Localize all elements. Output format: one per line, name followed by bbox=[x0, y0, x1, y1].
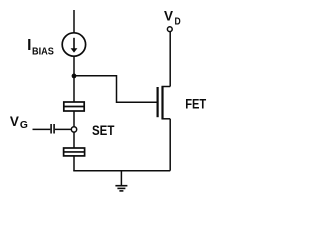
label I_BIAS bbox=[27, 37, 54, 57]
svg-text:G: G bbox=[20, 120, 28, 131]
terminal V_D (open circle) bbox=[167, 27, 172, 32]
wire: island to junction J2 bbox=[73, 132, 75, 148]
label V_G bbox=[10, 114, 28, 131]
svg-text:V: V bbox=[164, 8, 173, 23]
wire: bottom rail bbox=[73, 170, 170, 172]
label FET bbox=[185, 95, 206, 111]
wire: V_G lead to gate capacitor bbox=[33, 128, 51, 130]
wire: top lead into current source bbox=[73, 10, 75, 33]
ground bbox=[115, 171, 127, 191]
wire: gate feed from bias node to FET gate bbox=[74, 76, 157, 103]
svg-text:V: V bbox=[10, 114, 19, 129]
svg-text:FET: FET bbox=[185, 95, 206, 111]
wire: gate capacitor to SET island bbox=[55, 128, 71, 130]
svg-text:SET: SET bbox=[92, 123, 115, 138]
wire: J2 down to bottom rail bbox=[73, 156, 75, 171]
svg-text:BIAS: BIAS bbox=[32, 46, 54, 57]
tunnel junction J2 bbox=[64, 148, 85, 156]
svg-text:D: D bbox=[175, 16, 181, 27]
wire: J1 to island bbox=[73, 111, 75, 126]
node: junction dot at bias/gate tap bbox=[72, 74, 77, 79]
label V_D bbox=[164, 8, 181, 27]
current source I_BIAS bbox=[62, 33, 85, 56]
tunnel junction J1 bbox=[64, 102, 84, 111]
wire: FET drain up to V_D terminal bbox=[169, 32, 171, 87]
wire: FET source down to bottom rail bbox=[169, 119, 171, 171]
FET Q1 bbox=[158, 86, 171, 119]
wire: current source to junction J1 bbox=[73, 56, 75, 102]
node: SET island (open circle) bbox=[71, 127, 76, 132]
capacitor Cg (SET gate capacitor) bbox=[51, 124, 54, 134]
label SET bbox=[92, 123, 115, 138]
svg-text:I: I bbox=[27, 37, 31, 54]
